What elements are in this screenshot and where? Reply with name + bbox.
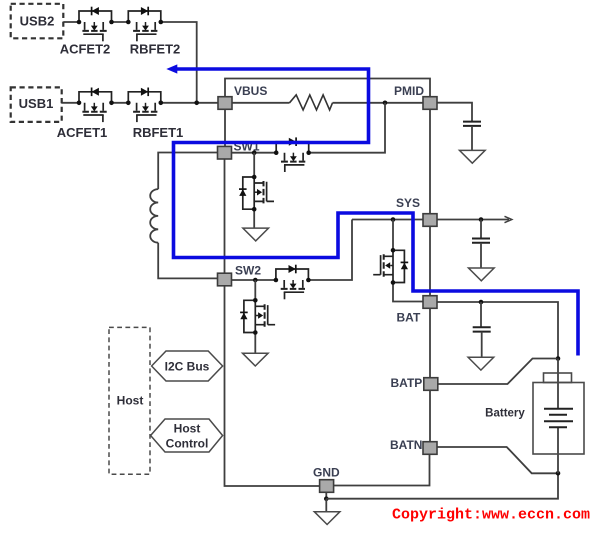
wire ACFET2 to RBFET2 xyxy=(112,21,129,23)
wire chip edge BAT to BATP xyxy=(429,309,431,378)
pin pad SYS xyxy=(423,214,437,227)
wire chip edge SW2 down to GND rail xyxy=(225,286,321,486)
wire SW2 low FET to ground xyxy=(254,333,256,354)
wire SW1-row FET to VBUS rail xyxy=(308,103,385,153)
wire BAT to battery plus xyxy=(437,302,558,359)
wire cap to ground xyxy=(481,332,483,358)
wire chip edge SYS to BAT xyxy=(429,227,431,296)
svg-text:SYS: SYS xyxy=(396,196,420,210)
battery terminal box xyxy=(544,373,572,383)
arrowhead SYS output xyxy=(505,216,512,222)
node junction SW1 branch xyxy=(252,150,257,155)
ground below PMID cap xyxy=(460,150,486,163)
node junction battery plus xyxy=(556,356,561,361)
wire BATFET drain xyxy=(392,220,394,251)
resistor xyxy=(290,95,333,110)
wire SW2-row FET right to SYS rail xyxy=(308,220,352,281)
wire SYS output with arrow xyxy=(437,219,509,221)
wire SYS to cap xyxy=(480,220,482,239)
transistor ACFET2 xyxy=(77,7,114,42)
wire BAT to cap xyxy=(480,302,482,327)
transistor ACFET1 xyxy=(77,88,114,123)
pin pad SW2 xyxy=(218,273,232,286)
node junction battery minus xyxy=(556,471,561,476)
blue arrowhead xyxy=(166,64,177,73)
capacitor C1 (PMID) xyxy=(463,122,481,126)
wire ACFET1 to RBFET1 xyxy=(112,102,129,104)
svg-text:Host: Host xyxy=(117,394,144,408)
ground below SW1 low FET xyxy=(243,228,269,241)
wire cap to ground xyxy=(480,243,482,268)
wire GND dot to earth symbol xyxy=(325,499,327,512)
wire PMID to cap xyxy=(437,103,472,122)
capacitor C3 (BAT) xyxy=(473,327,491,331)
svg-text:BAT: BAT xyxy=(397,311,421,325)
wire battery internal bottom xyxy=(557,427,559,473)
node junction GND xyxy=(324,496,329,501)
wire USB1 to ACFET1 xyxy=(61,102,79,104)
pin pad BATN xyxy=(423,442,437,455)
USB1 port box xyxy=(11,87,62,122)
wire chip edge PMID to SYS xyxy=(429,110,431,214)
wire chip edge SW1 to SW2 xyxy=(224,159,226,273)
svg-text:I2C Bus: I2C Bus xyxy=(165,360,210,374)
node junction SW2 branch xyxy=(253,278,258,283)
svg-text:VBUS: VBUS xyxy=(234,84,267,98)
wire BATN down to GND rail xyxy=(334,455,430,486)
node junction at 385 xyxy=(383,101,388,106)
wire cap to ground xyxy=(471,126,473,150)
transistor Q2 low-side (SW1) xyxy=(239,175,274,212)
capacitor C2 (SYS) xyxy=(472,239,490,243)
Host Control tag xyxy=(151,419,223,452)
svg-text:Battery: Battery xyxy=(485,408,525,420)
ground below BAT cap xyxy=(468,357,494,370)
wire resistor to PMID xyxy=(333,102,424,104)
USB2 port box xyxy=(11,4,64,39)
wire inductor to SW2 xyxy=(158,243,217,279)
wire VBUS top bypass to PMID xyxy=(225,79,430,98)
svg-text:RBFET2: RBFET2 xyxy=(130,41,181,56)
wire USB2 to ACFET2 xyxy=(63,21,79,23)
transistor Q1 high-side (SW1 row) xyxy=(274,137,311,172)
pin pad GND xyxy=(320,480,334,493)
wire BATN sense xyxy=(437,447,557,473)
wire chip edge BATP to BATN xyxy=(429,391,431,442)
wire SW2 pad to FET xyxy=(232,279,276,281)
svg-text:ACFET2: ACFET2 xyxy=(60,41,111,56)
wire SW2 branch down xyxy=(254,280,256,300)
transistor Q4 low-side (SW2) xyxy=(240,298,275,335)
ground below SYS cap xyxy=(469,268,495,281)
inductor L1 xyxy=(150,189,158,243)
wire GND dot to battery minus xyxy=(326,473,558,498)
svg-text:Copyright:www.eccn.com: Copyright:www.eccn.com xyxy=(392,507,590,524)
transistor BATFET xyxy=(373,248,408,285)
wire RBFET2 output down to USB1 row xyxy=(160,22,197,103)
svg-text:USB1: USB1 xyxy=(19,96,54,111)
I2C Bus tag xyxy=(152,351,223,381)
wire SW1 pad to inductor xyxy=(158,153,217,190)
svg-text:BATP: BATP xyxy=(391,376,423,390)
pin pad BATP xyxy=(424,378,438,391)
svg-text:Host: Host xyxy=(174,422,201,436)
transistor Q3 high-side (SW2 row) xyxy=(274,265,311,300)
svg-text:Control: Control xyxy=(166,437,209,451)
wire SYS rail xyxy=(352,219,423,221)
battery outer box xyxy=(533,383,584,455)
node junction SYS cap xyxy=(479,217,484,222)
ground below SW2 low FET xyxy=(243,353,269,366)
wire RBFET1 to VBUS pin xyxy=(160,102,218,104)
wire SW1 branch down xyxy=(253,153,255,177)
pin pad PMID xyxy=(423,97,437,110)
ground below GND pad xyxy=(314,512,340,525)
svg-text:SW2: SW2 xyxy=(235,264,261,278)
Host box xyxy=(109,327,150,474)
svg-text:ACFET1: ACFET1 xyxy=(57,125,108,140)
svg-text:GND: GND xyxy=(313,466,340,480)
transistor RBFET2 xyxy=(126,7,163,42)
wire VBUS to resistor xyxy=(232,102,290,104)
svg-text:RBFET1: RBFET1 xyxy=(133,125,184,140)
battery cell plates xyxy=(544,409,573,428)
svg-text:USB2: USB2 xyxy=(20,13,55,28)
node junction BATFET top xyxy=(391,217,396,222)
wire chip edge VBUS to SW1 xyxy=(224,110,226,147)
transistor RBFET1 xyxy=(126,88,163,123)
wire battery internal top xyxy=(557,359,559,409)
svg-text:BATN: BATN xyxy=(390,438,422,452)
wire BATFET source to BAT pad xyxy=(393,283,423,302)
pin pad BAT xyxy=(423,296,437,309)
svg-text:PMID: PMID xyxy=(394,84,424,98)
pin pad VBUS xyxy=(218,97,232,110)
pin pad SW1 xyxy=(218,146,232,159)
blue highlight current path xyxy=(174,69,579,356)
wire SW1 low FET to ground xyxy=(253,209,255,228)
wire GND pad down to dot xyxy=(325,493,327,499)
wire SW1 pad to FET xyxy=(232,152,277,154)
wire BATP sense xyxy=(438,359,557,385)
node junction USB rails xyxy=(194,101,199,106)
node junction BAT cap xyxy=(479,300,484,305)
